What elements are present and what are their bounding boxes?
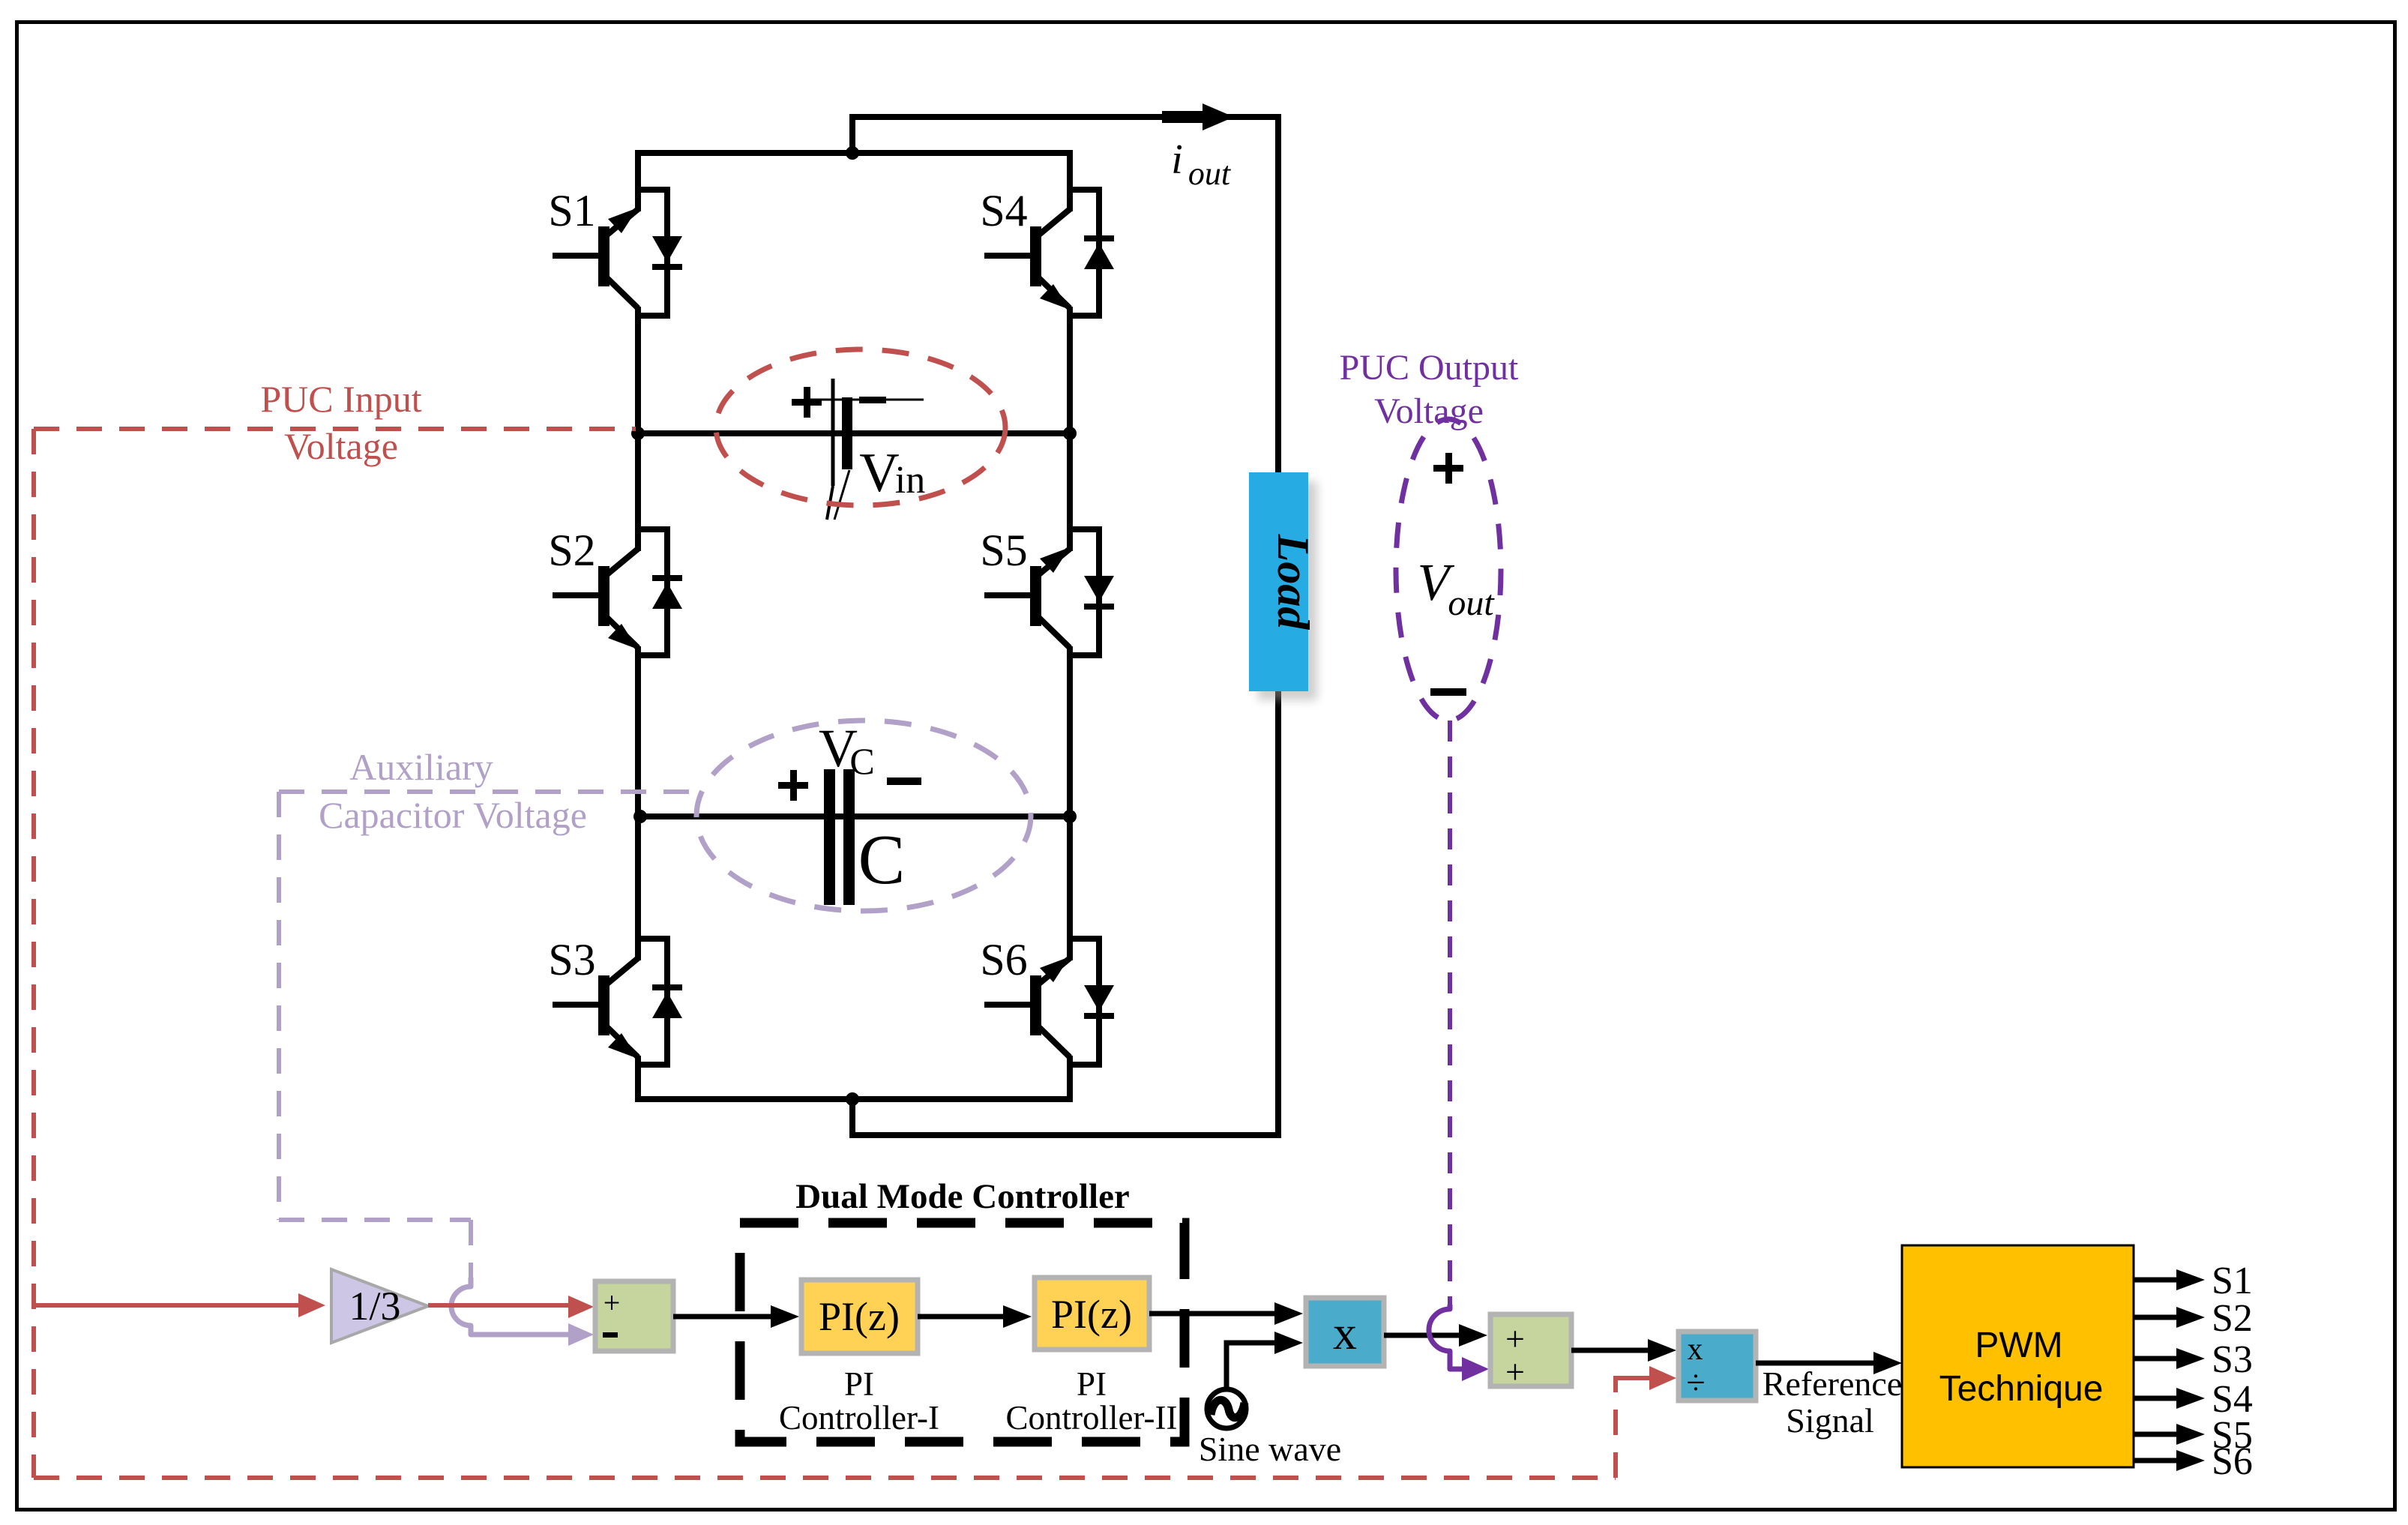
svg-text:Controller-I: Controller-I — [779, 1399, 939, 1437]
node: Vin rail left — [631, 427, 645, 440]
wire summer 2 to divider — [1571, 1348, 1648, 1353]
wire PWM output S2 — [2134, 1315, 2178, 1320]
svg-text:PWM: PWM — [1975, 1326, 2062, 1365]
node: Vin rail right — [1063, 427, 1077, 440]
wire multiplier to summer 2 — [1384, 1333, 1460, 1338]
wire: top rail — [635, 150, 1073, 156]
svg-text:Reference: Reference — [1763, 1365, 1902, 1403]
summer 2 (+/+) — [1490, 1314, 1571, 1386]
wire PWM output S3 — [2134, 1356, 2178, 1362]
svg-text:C: C — [858, 821, 906, 899]
lavender dashed wire: capacitor voltage sense — [279, 789, 697, 794]
node: Vc rail right — [1063, 810, 1077, 823]
red dashed wire: PUC input voltage sense — [34, 427, 636, 431]
svg-text:S1: S1 — [2212, 1260, 2253, 1302]
wire: Vin rail — [638, 430, 1070, 436]
svg-text:x: x — [1688, 1332, 1703, 1367]
dashed red ellipse: PUC input voltage highlight — [716, 349, 1005, 505]
red wire gain to summer — [428, 1303, 570, 1308]
svg-text:S4: S4 — [980, 186, 1027, 235]
svg-text:S6: S6 — [2212, 1440, 2253, 1483]
svg-text:C: C — [849, 740, 874, 782]
wire: Vc rail — [638, 813, 1070, 819]
Vout minus sign — [1430, 688, 1466, 696]
lavender hop arc over red wire — [451, 1278, 568, 1335]
svg-text:PUC Output: PUC Output — [1340, 348, 1519, 388]
svg-text:PI: PI — [1077, 1365, 1107, 1403]
wire: output top (to load) with node — [852, 117, 1278, 472]
svg-text:Technique: Technique — [1939, 1369, 2104, 1409]
svg-text:PUC Input: PUC Input — [260, 378, 421, 420]
svg-text:Sine wave: Sine wave — [1199, 1430, 1341, 1468]
load (cyan box) — [1249, 472, 1308, 691]
wire divider to PWM with label Reference Signal — [1756, 1361, 1874, 1366]
svg-text:÷: ÷ — [1686, 1363, 1705, 1401]
dashed rect: dual mode controller boundary — [740, 1223, 1185, 1442]
svg-text:S5: S5 — [980, 526, 1027, 575]
wire PWM output S5 — [2134, 1432, 2178, 1437]
svg-text:Voltage: Voltage — [1374, 391, 1484, 431]
svg-text:+: + — [603, 1286, 621, 1320]
summer 1 (+/-) — [595, 1281, 673, 1351]
svg-text:S1: S1 — [548, 186, 595, 235]
svg-text:Signal: Signal — [1786, 1401, 1874, 1440]
svg-text:Auxiliary: Auxiliary — [349, 746, 493, 788]
red input arrow to gain — [34, 1303, 300, 1308]
load shadow — [1258, 481, 1317, 700]
node: top centre junction — [846, 146, 859, 160]
wire PWM output S4 — [2134, 1396, 2178, 1401]
svg-text:S6: S6 — [980, 935, 1027, 984]
wire: bottom rail — [635, 1096, 1073, 1102]
Vout plus sign — [1433, 465, 1463, 472]
svg-text:PI(z): PI(z) — [819, 1294, 900, 1339]
transistor S4 (IGBT with anti-parallel diode) — [984, 188, 1114, 317]
svg-text:PI: PI — [844, 1365, 874, 1403]
svg-text:S2: S2 — [2212, 1297, 2253, 1340]
multiplier block x — [1306, 1298, 1384, 1366]
battery plus sign — [792, 399, 822, 406]
svg-text:Controller-II: Controller-II — [1005, 1399, 1177, 1437]
node: bottom centre junction — [846, 1092, 859, 1106]
svg-text:S2: S2 — [548, 526, 595, 575]
transistor S1 (IGBT with anti-parallel diode) — [553, 188, 682, 317]
svg-text:Capacitor Voltage: Capacitor Voltage — [319, 794, 587, 836]
PI controller II block PI(z) — [1035, 1278, 1149, 1350]
svg-text:x: x — [1333, 1306, 1357, 1359]
svg-text:Load: Load — [1268, 534, 1318, 631]
capacitor minus sign — [887, 777, 921, 785]
wire summer1 to PI controller I — [673, 1314, 771, 1320]
transistor S3 (IGBT with anti-parallel diode) — [553, 937, 682, 1066]
dashed purple ellipse: PUC output voltage — [1396, 419, 1501, 721]
purple dashed feedback wire from Vout — [1448, 721, 1452, 1305]
transistor S6 (IGBT with anti-parallel diode) — [984, 937, 1114, 1066]
svg-text:S3: S3 — [2212, 1338, 2253, 1381]
gain block 1/3 — [331, 1269, 428, 1343]
wire: left bus segments — [635, 150, 641, 211]
divider block x/÷ — [1679, 1332, 1756, 1401]
node: Vc rail left — [633, 810, 647, 823]
wire PI-II to multiplier — [1149, 1311, 1274, 1317]
svg-text:+: + — [1505, 1353, 1525, 1391]
wire PI-I to PI-II — [918, 1314, 1003, 1320]
svg-text:Dual Mode Controller: Dual Mode Controller — [795, 1177, 1130, 1216]
wire sine to multiplier — [1226, 1343, 1274, 1388]
transistor S5 (IGBT with anti-parallel diode) — [984, 528, 1114, 657]
wire PWM output S1 — [2134, 1278, 2178, 1283]
svg-text:in: in — [895, 459, 925, 502]
svg-text:V: V — [859, 442, 899, 504]
svg-text:S3: S3 — [548, 935, 595, 984]
svg-text:PI(z): PI(z) — [1051, 1292, 1132, 1337]
wire PWM output S6 — [2134, 1458, 2178, 1464]
capacitor C — [824, 769, 855, 905]
capacitor plus sign — [778, 782, 808, 789]
PWM Technique block — [1902, 1245, 2134, 1467]
svg-text:out: out — [1448, 583, 1495, 623]
transistor S2 (IGBT with anti-parallel diode) — [553, 528, 682, 657]
iout arrow on output wire — [1162, 111, 1205, 123]
purple hop arc over black wire — [1429, 1305, 1462, 1369]
svg-text:1/3: 1/3 — [349, 1284, 400, 1329]
battery Vin — [808, 379, 924, 520]
dashed lavender ellipse: auxiliary capacitor voltage highlight — [696, 721, 1031, 911]
sine wave source — [1207, 1389, 1246, 1428]
battery minus sign — [859, 397, 886, 403]
red dashed wire: bottom feedback run — [34, 1476, 1616, 1480]
PI controller I block PI(z) — [801, 1280, 918, 1353]
svg-text:out: out — [1188, 155, 1232, 192]
wire: right bus segments — [1067, 150, 1073, 211]
svg-text:i: i — [1171, 136, 1183, 183]
wire: output bottom (from load) — [852, 691, 1278, 1135]
red wire into divider — [1616, 1378, 1649, 1392]
svg-text:Voltage: Voltage — [284, 425, 398, 467]
